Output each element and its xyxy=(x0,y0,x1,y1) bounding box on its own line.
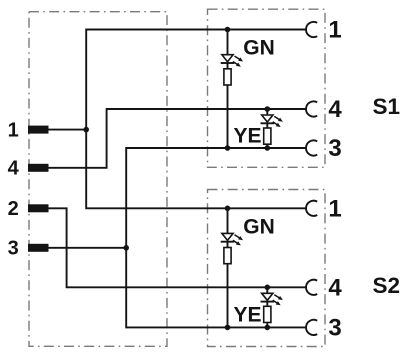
resistor R1 (S1 GN) xyxy=(224,69,231,85)
wire S1 YE led-to-resistor xyxy=(266,123,268,128)
svg-text:4: 4 xyxy=(8,158,20,180)
socket S2 housing (dash-dot outline) xyxy=(208,190,326,347)
svg-text:GN: GN xyxy=(243,37,274,60)
LED YE (S1) triangle (anode, pointing down) xyxy=(262,115,273,122)
svg-text:3: 3 xyxy=(328,135,341,162)
male contact pin 1 (left connector) xyxy=(28,126,49,134)
svg-text:S2: S2 xyxy=(373,273,401,298)
wire S1 YE anode feed xyxy=(266,109,268,115)
wire S2 GN anode feed xyxy=(227,208,229,233)
male contact pin 2 (left connector) xyxy=(28,204,49,212)
svg-text:3: 3 xyxy=(328,315,341,342)
socket contact S2 pin 3 xyxy=(306,320,317,335)
svg-text:1: 1 xyxy=(328,196,341,223)
junction S1 GN top xyxy=(225,27,231,33)
svg-text:1: 1 xyxy=(8,120,19,142)
socket contact S2 pin 1 xyxy=(306,201,317,216)
socket contact S1 pin 3 xyxy=(306,140,317,155)
junction S2 YE top xyxy=(265,285,271,291)
wire pin1 stub to node A xyxy=(48,129,86,131)
wire S1 GN led-to-resistor xyxy=(227,63,229,69)
wire S2 YE anode feed xyxy=(266,287,268,293)
LED GN (S2) light-emission arrows xyxy=(233,235,243,246)
svg-text:4: 4 xyxy=(328,275,342,302)
svg-text:YE: YE xyxy=(234,125,262,148)
LED GN (S2) triangle (anode, pointing down) xyxy=(222,233,233,240)
wire net3 bus: S1 contact3 / S2 contact3 xyxy=(126,148,306,327)
wire S2 YE led-to-resistor xyxy=(266,302,268,307)
socket contact S1 pin 4 xyxy=(306,101,317,116)
wire S1 GN return to net3 xyxy=(227,85,229,148)
junction S2 GN top xyxy=(225,206,231,212)
LED YE (S2) cathode bar xyxy=(261,301,275,303)
LED GN (S1) cathode bar xyxy=(221,62,235,64)
wire net4: pin4 to S1 contact4 xyxy=(48,109,306,168)
wire S2 GN led-to-resistor xyxy=(227,242,229,248)
junction S2 GN bottom xyxy=(225,325,231,331)
wire net1 bus: S1 contact1 / S2 contact1 xyxy=(86,30,306,209)
LED YE (S1) light-emission arrows xyxy=(273,116,283,127)
left connector housing (dash-dot outline) xyxy=(29,12,167,347)
LED GN (S1) triangle (anode, pointing down) xyxy=(222,55,233,62)
svg-text:2: 2 xyxy=(8,198,19,220)
wire net2: pin2 to S2 contact4 xyxy=(48,208,306,287)
LED GN (S2) cathode bar xyxy=(221,241,235,243)
wire S2 GN return to net3 xyxy=(227,264,229,328)
junction node B (pin3 tap) xyxy=(123,245,129,251)
resistor R2 (S1 YE) xyxy=(264,128,271,144)
socket contact S1 pin 1 xyxy=(306,22,317,37)
svg-text:GN: GN xyxy=(243,216,274,239)
male contact pin 4 (left connector) xyxy=(28,164,49,172)
LED YE (S2) light-emission arrows xyxy=(273,295,283,306)
junction node A (pin1 tap) xyxy=(83,127,89,133)
svg-text:YE: YE xyxy=(234,304,262,327)
socket contact S2 pin 4 xyxy=(306,280,317,295)
wire S2 YE return to net3 xyxy=(266,323,268,328)
wire S1 YE return to net3 xyxy=(266,144,268,148)
socket S1 housing (dash-dot outline) xyxy=(208,9,326,167)
LED YE (S1) cathode bar xyxy=(261,122,275,124)
junction S1 GN bottom xyxy=(225,145,231,151)
resistor R4 (S2 YE) xyxy=(264,306,271,322)
resistor R3 (S2 GN) xyxy=(224,248,231,264)
junction S1 YE bottom xyxy=(265,145,271,151)
svg-text:1: 1 xyxy=(328,17,341,44)
svg-text:S1: S1 xyxy=(373,94,401,119)
LED YE (S2) triangle (anode, pointing down) xyxy=(262,293,273,300)
svg-text:4: 4 xyxy=(328,96,342,123)
male contact pin 3 (left connector) xyxy=(28,244,49,252)
junction S2 YE bottom xyxy=(265,325,271,331)
wire pin3 stub to node B xyxy=(48,247,126,249)
wire S1 GN anode feed xyxy=(227,30,229,55)
svg-text:3: 3 xyxy=(8,238,19,260)
junction S1 YE top xyxy=(265,106,271,112)
LED GN (S1) light-emission arrows xyxy=(233,56,243,67)
